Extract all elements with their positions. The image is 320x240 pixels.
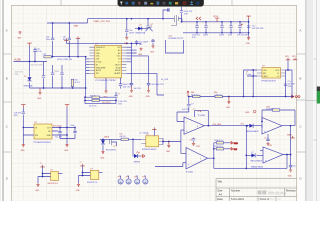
svg-text:2V5_REF: 2V5_REF — [213, 124, 222, 126]
scrollbar track right — [313, 0, 320, 201]
svg-text:10uF 25V: 10uF 25V — [123, 86, 132, 88]
svg-text:Title: Title — [217, 179, 222, 183]
resistor R1 chain — [120, 133, 129, 140]
pin names U1 right — [115, 47, 122, 75]
capacitor out2 — [71, 125, 77, 138]
wire ic1 left — [38, 167, 51, 183]
wire chain — [100, 138, 141, 140]
sheet inner border right — [296, 5, 298, 201]
power arrow row2 — [230, 148, 238, 152]
node in dot — [22, 127, 24, 129]
svg-text:STACK/HE: STACK/HE — [96, 66, 106, 69]
ground right of IC — [138, 48, 143, 57]
svg-text:C4x: C4x — [293, 165, 296, 167]
wire left rail in — [244, 70, 258, 76]
svg-text:R3x 2k: R3x 2k — [90, 95, 96, 97]
pins right U3 — [281, 70, 286, 76]
wire op2 output — [208, 158, 214, 168]
wire bend to rail — [87, 19, 89, 23]
svg-text:C: C — [6, 125, 8, 129]
node op1 out dot — [207, 125, 209, 127]
wire op1 inputs — [181, 129, 184, 131]
svg-text:+C?: +C? — [190, 104, 194, 106]
power marker red small — [187, 91, 189, 97]
svg-text:1uF 25V: 1uF 25V — [134, 88, 142, 90]
wire op1 plus vertical — [180, 130, 182, 153]
node loop dots — [61, 87, 63, 89]
capacitor out — [284, 81, 296, 88]
svg-text:1uF 25V X5R: 1uF 25V X5R — [237, 35, 248, 37]
node rail dots — [126, 18, 128, 20]
floating toolbar — [118, 0, 204, 6]
testpoint TP3 — [134, 176, 140, 185]
panel thumb dark cap — [317, 87, 320, 92]
wire ic1 right stub — [58, 173, 62, 175]
svg-text:X5R: X5R — [15, 74, 19, 76]
svg-text:54.7k 1%: 54.7k 1% — [89, 106, 97, 108]
diode LED green — [134, 152, 141, 164]
wire ic2 right stub — [99, 172, 103, 174]
svg-text:6: 6 — [197, 126, 198, 128]
zone divider marks left strip — [4, 54, 12, 152]
power port 5V0 top — [285, 56, 290, 70]
toolbar icon 12 person blue — [190, 1, 193, 5]
diode TVS mid — [135, 24, 148, 34]
zone divider marks top strip — [61, 0, 232, 5]
power port vbat right — [287, 133, 295, 138]
svg-text:X5R: X5R — [14, 115, 18, 117]
svg-text:100nF: 100nF — [54, 71, 60, 73]
svg-text:VUSB: VUSB — [14, 59, 21, 62]
svg-text:43k 1%: 43k 1% — [120, 136, 126, 138]
wire right bus — [163, 139, 181, 145]
testpoint TP4 — [142, 176, 148, 185]
capacitor above fet — [180, 7, 193, 22]
ground label agnd — [245, 110, 256, 114]
svg-text:Windows: Windows — [268, 190, 287, 195]
svg-text:L1: L1 — [118, 62, 120, 64]
wire top y23 — [47, 22, 88, 24]
svg-text:Date: Date — [217, 197, 223, 201]
wire top-left stub — [163, 10, 169, 19]
resistor R5A — [215, 139, 224, 144]
op-amp U5B — [186, 148, 208, 169]
power port btn — [152, 127, 156, 135]
svg-text:GND: GND — [76, 190, 81, 192]
svg-text:B: B — [300, 77, 302, 81]
node btn dot — [162, 141, 164, 143]
wire divider vertical — [213, 143, 215, 158]
wire VUSB horizontal — [14, 61, 48, 63]
node rail dots — [52, 22, 54, 24]
svg-text:TLV2462: TLV2462 — [186, 171, 194, 173]
svg-text:Px_OFF: Px_OFF — [161, 79, 169, 81]
pins left U3 — [257, 70, 262, 76]
resistor R series — [43, 54, 52, 58]
toolbar icon 8 dim square — [163, 2, 166, 5]
capacitor right column — [114, 92, 127, 105]
svg-text:2k 1%: 2k 1% — [75, 82, 81, 84]
capacitor top stub — [168, 8, 170, 12]
svg-text:STACK/CT: STACK/CT — [96, 46, 106, 49]
svg-text:GND: GND — [146, 96, 151, 98]
svg-text:T/TLD: T/TLD — [96, 62, 102, 64]
capacitor on loop 2 — [60, 73, 63, 75]
capacitor C2 — [33, 48, 42, 62]
ground chain — [100, 151, 105, 160]
sheet grid major — [12, 5, 297, 201]
svg-text:VSYS: VSYS — [213, 16, 219, 18]
svg-text:GND: GND — [166, 151, 171, 153]
wire op2 inputs — [155, 153, 186, 166]
node end dots — [248, 21, 250, 23]
wire out vertical — [66, 108, 68, 144]
ground GND below join — [37, 88, 42, 100]
power port mid rail — [64, 38, 68, 40]
svg-text:C?: C? — [118, 93, 120, 95]
svg-text:□□□□□□□□ Windows: □□□□□□□□ Windows — [257, 197, 281, 201]
capacitor below q — [151, 39, 154, 45]
svg-text:GND: GND — [17, 38, 22, 40]
svg-text:D?: D? — [252, 152, 254, 154]
wire op3 feedback loop — [262, 110, 295, 126]
node rows dots — [84, 96, 117, 101]
svg-text:CM-: CM- — [96, 56, 100, 58]
wire feedback row — [188, 96, 294, 98]
scrollbar border line — [315, 0, 317, 201]
svg-text:7: 7 — [200, 158, 201, 160]
sheet grid minor — [12, 5, 297, 201]
sheet inner border top — [11, 4, 296, 6]
svg-text:B: B — [6, 77, 8, 81]
wire loop bottom — [53, 87, 86, 89]
svg-text:SN74LVC1G: SN74LVC1G — [48, 183, 59, 185]
svg-text:TP?: TP? — [134, 176, 137, 178]
svg-text:MAX40200AUK: MAX40200AUK — [246, 130, 259, 133]
svg-text:2V5: 2V5 — [241, 124, 244, 126]
node out dot — [287, 69, 289, 71]
resistor row1 — [92, 96, 99, 98]
svg-text:GND: GND — [263, 76, 268, 78]
svg-text:SN74LVC1G: SN74LVC1G — [87, 182, 98, 184]
svg-text:GND: GND — [64, 150, 69, 152]
power port end rail — [246, 16, 250, 19]
svg-text:X5R: X5R — [288, 86, 292, 88]
svg-text:GND: GND — [35, 190, 40, 192]
power port VBUS — [27, 43, 31, 46]
node tps dots — [252, 69, 254, 77]
resistor feedback op3 — [266, 105, 280, 111]
svg-text:A: A — [300, 29, 302, 33]
svg-text:ALERT: ALERT — [115, 72, 122, 75]
svg-text:C: C — [300, 125, 302, 129]
svg-text:GND: GND — [47, 135, 52, 137]
node divider dot — [213, 148, 215, 150]
wire row3 — [85, 103, 116, 105]
svg-text:AUX2: AUX2 — [96, 69, 101, 72]
ground C6 — [146, 87, 151, 99]
capacitor bank 1 — [195, 22, 198, 33]
svg-text:Revision: Revision — [286, 188, 297, 192]
svg-text:AUTO: AUTO — [115, 63, 121, 66]
wire end rail vertical — [248, 19, 250, 37]
capacitor in — [14, 112, 25, 117]
svg-text:TP?: TP? — [118, 176, 121, 178]
capacitor bank 2 — [204, 22, 207, 33]
svg-text:1uF 25V: 1uF 25V — [182, 109, 190, 111]
svg-text:X5R: X5R — [184, 13, 188, 15]
ground ic2 — [76, 183, 81, 192]
ground below q — [150, 45, 155, 53]
svg-text:TPS7A0533PDBVR: TPS7A0533PDBVR — [33, 141, 51, 144]
wire op1 output — [204, 125, 251, 127]
toolbar icon 3 blue square — [132, 2, 135, 5]
op-amp U7 — [263, 147, 283, 163]
node dots on VSYS wire — [52, 56, 54, 58]
power port VBAT down — [74, 25, 81, 57]
capacitor C3 — [42, 62, 45, 89]
svg-text:VBAT_LIPO 3V8: VBAT_LIPO 3V8 — [94, 20, 111, 23]
svg-text:WKUP: WKUP — [115, 70, 121, 72]
svg-text:5V0: 5V0 — [285, 56, 288, 58]
pins left U4 — [141, 140, 146, 144]
svg-text:3V3_MCU: 3V3_MCU — [53, 125, 62, 127]
sheet outer border left — [3, 0, 4, 201]
toolbar icon 7 blue doc — [157, 2, 160, 5]
svg-text:100nF: 100nF — [203, 35, 209, 37]
svg-text:Size: Size — [217, 188, 223, 192]
toolbar icon 2 blue circle — [125, 2, 128, 5]
capacitor under IC — [119, 78, 133, 89]
node feedback dots — [188, 96, 293, 98]
svg-text:C6x 100nF 25V: C6x 100nF 25V — [151, 84, 165, 86]
resistor row2 — [92, 99, 99, 101]
capacitor C1 end — [247, 26, 264, 30]
svg-text:GND: GND — [288, 175, 293, 177]
svg-text:BTN8962TA-ND: BTN8962TA-ND — [142, 148, 157, 151]
ground U1 bottom — [103, 78, 108, 99]
capacitor op1 bypass — [190, 138, 196, 146]
testpoint TP2 — [126, 176, 132, 185]
toolbar icon 11 dark red donut — [183, 1, 187, 5]
svg-text:TPS63020DSJR: TPS63020DSJR — [261, 80, 276, 82]
wire out pins — [52, 128, 67, 136]
wire in to pin — [23, 128, 34, 136]
toolbar icon 13 navy circle — [196, 1, 199, 4]
node ic2 dot — [82, 172, 84, 174]
svg-text:D?: D? — [24, 76, 26, 78]
workspace gray left edge — [0, 0, 1, 201]
svg-text:TLV2462: TLV2462 — [198, 115, 206, 117]
wire op1 power pin — [194, 111, 208, 126]
capacitor C10 — [182, 104, 195, 112]
svg-text:CM: CM — [96, 59, 99, 61]
svg-text:VCC: VCC — [117, 56, 122, 58]
pin names U3 — [263, 70, 268, 78]
svg-text:2V5: 2V5 — [234, 149, 237, 151]
wire op4 minus stub — [260, 150, 263, 152]
power port out — [65, 105, 69, 108]
title block frame — [216, 179, 297, 201]
wire LED drop — [132, 139, 135, 156]
wire inverting input path — [177, 97, 189, 122]
svg-text:2.2uF: 2.2uF — [37, 51, 43, 53]
transistor Q3 — [110, 139, 117, 148]
svg-text:GND: GND — [37, 98, 42, 100]
node op3 dots — [261, 121, 291, 127]
power port on rail2 — [213, 16, 219, 22]
svg-text:GND: GND — [245, 112, 250, 114]
wire bus down — [84, 97, 86, 104]
svg-text:Q?: Q? — [151, 24, 154, 26]
svg-text:T?: T? — [80, 162, 82, 164]
component U2 body — [34, 124, 52, 139]
resistor R9 — [214, 92, 222, 98]
wire rail VBAT_LIPO — [88, 18, 173, 20]
svg-text:100n: 100n — [46, 39, 50, 41]
svg-text:GND: GND — [150, 51, 155, 53]
svg-text:1.37k 1%: 1.37k 1% — [214, 94, 222, 96]
capacitor bank 5 polarized — [238, 22, 242, 33]
zone divider marks right strip — [297, 54, 306, 152]
ground ic1 — [35, 183, 40, 192]
wire op3 output down — [290, 126, 292, 155]
svg-text:VBUS: VBUS — [104, 137, 110, 139]
svg-text:10uF 25V X5R: 10uF 25V X5R — [31, 65, 43, 67]
wire left pin bus — [85, 57, 87, 97]
svg-text:GND: GND — [129, 96, 134, 98]
sheet content background — [12, 5, 297, 201]
svg-text:LTC4162IUFD#TRPBF: LTC4162IUFD#TRPBF — [95, 80, 116, 82]
component U4 body — [146, 136, 159, 147]
power marker red arrows — [196, 17, 201, 20]
svg-text:GREEN: GREEN — [134, 162, 141, 164]
wire stage4 sense vertical — [245, 126, 247, 169]
wire right out — [286, 70, 293, 97]
wire pins mid right — [126, 59, 131, 83]
wire bottom pin right — [126, 73, 164, 95]
pin names U2 — [35, 127, 38, 137]
workspace divider tick right — [306, 99, 316, 101]
svg-text:D: D — [6, 177, 8, 181]
svg-text:C?: C? — [264, 138, 266, 140]
resistor R8 — [191, 92, 200, 98]
svg-text:L2: L2 — [277, 76, 279, 78]
power port in — [21, 105, 25, 108]
node join — [43, 87, 45, 89]
svg-text:VOU: VOU — [275, 70, 280, 72]
capacitor out op4 — [289, 165, 296, 169]
transistor Q1 pmos — [169, 15, 184, 40]
svg-text:TLV2462: TLV2462 — [266, 109, 274, 111]
ground rail drop — [124, 37, 129, 46]
resistor R5B — [215, 146, 224, 150]
svg-text:5-Oct-2021: 5-Oct-2021 — [231, 197, 245, 201]
svg-text:D?: D? — [140, 24, 142, 26]
scrollbar tick upper — [314, 58, 317, 60]
svg-text:VBAT: VBAT — [74, 25, 80, 28]
svg-text:R5B 28.7k: R5B 28.7k — [215, 146, 223, 148]
watermark 激活 Windows — [258, 190, 288, 195]
ground in — [21, 144, 26, 152]
sheet zone strip top — [3, 0, 305, 5]
node op4 out dot — [286, 154, 288, 156]
svg-text:GND: GND — [246, 43, 251, 45]
node op2 out dot — [213, 157, 215, 159]
transistor Q2 dual fet — [145, 19, 153, 32]
toolbar icon 5 light blue — [144, 2, 147, 5]
capacitor right lower — [130, 83, 142, 90]
wire in stem — [22, 108, 24, 128]
wire divider row1 — [214, 142, 230, 144]
svg-text:5V0_MCU: 5V0_MCU — [102, 102, 111, 104]
svg-text:2.2k: 2.2k — [43, 54, 47, 56]
node bus top — [85, 56, 87, 58]
sheet inner border left — [10, 5, 12, 201]
component U1 body — [95, 45, 122, 78]
op-amp U5A — [184, 117, 204, 134]
wire VCC drop to pins — [131, 43, 133, 61]
op-amp U6A — [262, 118, 282, 135]
power port ic2 — [80, 162, 85, 166]
wire gate loop — [166, 40, 184, 53]
toolbar icon 6 yellow wedge — [150, 3, 153, 5]
node VCC dots — [126, 43, 137, 45]
svg-text:FDN340P SOT23: FDN340P SOT23 — [169, 38, 184, 40]
wire ic2 left — [79, 166, 91, 183]
svg-text:TP?: TP? — [142, 176, 145, 178]
svg-text:Q?: Q? — [114, 146, 116, 148]
wire in down — [22, 128, 24, 144]
capacitor bank 3 — [220, 22, 223, 33]
wire pin stubs left — [86, 59, 90, 74]
component U8 body — [51, 172, 59, 181]
toolbar icon 4 red accent square — [138, 2, 141, 5]
inductor L1 label — [246, 71, 252, 75]
capacitor op3 bypass — [264, 134, 270, 146]
svg-text:X5R: X5R — [118, 103, 122, 105]
svg-text:Number: Number — [231, 188, 240, 192]
wire pin1 up — [126, 46, 131, 48]
toolbar icon 9 teal square — [169, 2, 172, 5]
power arrow LED — [141, 155, 145, 158]
svg-text:1uF 25V X5R: 1uF 25V X5R — [252, 28, 264, 30]
node VUSB junction — [29, 61, 31, 63]
wire VCC mid — [66, 40, 141, 43]
svg-text:BZT52B5V6: BZT52B5V6 — [106, 150, 116, 152]
workspace gray right of sheet — [306, 0, 313, 201]
pin names U1 left — [96, 46, 106, 75]
diode D1 TVS — [24, 62, 34, 89]
svg-text:TP?: TP? — [126, 176, 129, 178]
capacitor on rail drop C4 — [125, 19, 135, 37]
testpoint TP1 — [118, 176, 124, 185]
svg-text:NC/M: NC/M — [116, 67, 121, 69]
ground op4 — [288, 169, 293, 177]
ground out — [64, 144, 69, 152]
svg-text:L1: L1 — [277, 73, 279, 75]
capacitor out1 — [55, 128, 63, 139]
toolbar icon 10 yellow folder — [175, 2, 178, 5]
wire diode to op3 — [253, 126, 262, 128]
wire divider row2 — [214, 148, 230, 150]
scrollbar tick lower — [314, 139, 317, 141]
node cap junction — [34, 61, 36, 63]
wire VBUS stem — [29, 46, 31, 62]
power arrow right end — [292, 95, 300, 98]
svg-text:GND: GND — [21, 150, 26, 152]
svg-text:SMBJ5.0A: SMBJ5.0A — [24, 85, 34, 88]
